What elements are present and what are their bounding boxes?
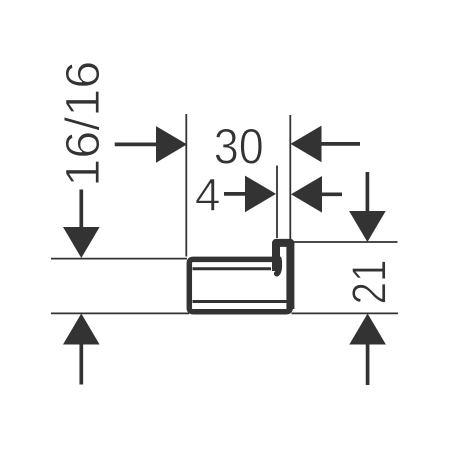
node: arrowhead 21 up <box>349 314 386 345</box>
component: clip stub and right wall <box>276 243 290 309</box>
wire: dim 30 left tail <box>115 143 158 147</box>
svg-text:16/16: 16/16 <box>57 61 110 187</box>
node: arrowhead 30 left <box>291 126 322 163</box>
node: arrowhead 16/16 down <box>63 227 100 258</box>
wire: dim 30 right tail <box>320 142 360 146</box>
node: arrowhead 4 left <box>291 176 322 213</box>
wire: dim 16/16 upper stem <box>79 190 83 231</box>
wire: dim 4 right tail <box>321 192 342 196</box>
component: escutcheon body outline <box>189 259 290 311</box>
svg-text:30: 30 <box>214 119 264 175</box>
wire: left bottom reference line <box>51 312 189 314</box>
wire: extension line E2 <box>276 166 278 239</box>
wire: left top reference line <box>51 258 187 260</box>
wire: extension line E1 <box>185 114 187 257</box>
wire: right bottom reference line <box>292 312 399 314</box>
svg-text:4: 4 <box>195 169 221 221</box>
svg-text:21: 21 <box>344 260 397 305</box>
wire: extension line E3 <box>289 115 291 241</box>
wire: inner bottom line <box>193 300 289 303</box>
node: arrowhead 21 down <box>349 211 386 242</box>
component: spring hook <box>277 259 279 274</box>
node: arrowhead 16/16 up <box>63 314 100 345</box>
wire: dim 21 lower stem <box>366 345 370 386</box>
node: arrowhead 4 right <box>245 176 276 213</box>
wire: right top reference line <box>293 241 398 243</box>
wire: dim 21 upper stem <box>366 172 370 213</box>
wire: inner top line <box>193 267 272 270</box>
node: arrowhead 30 right <box>156 126 187 163</box>
wire: dim 4 left tail <box>224 192 247 196</box>
wire: dim 16/16 lower stem <box>79 343 83 385</box>
